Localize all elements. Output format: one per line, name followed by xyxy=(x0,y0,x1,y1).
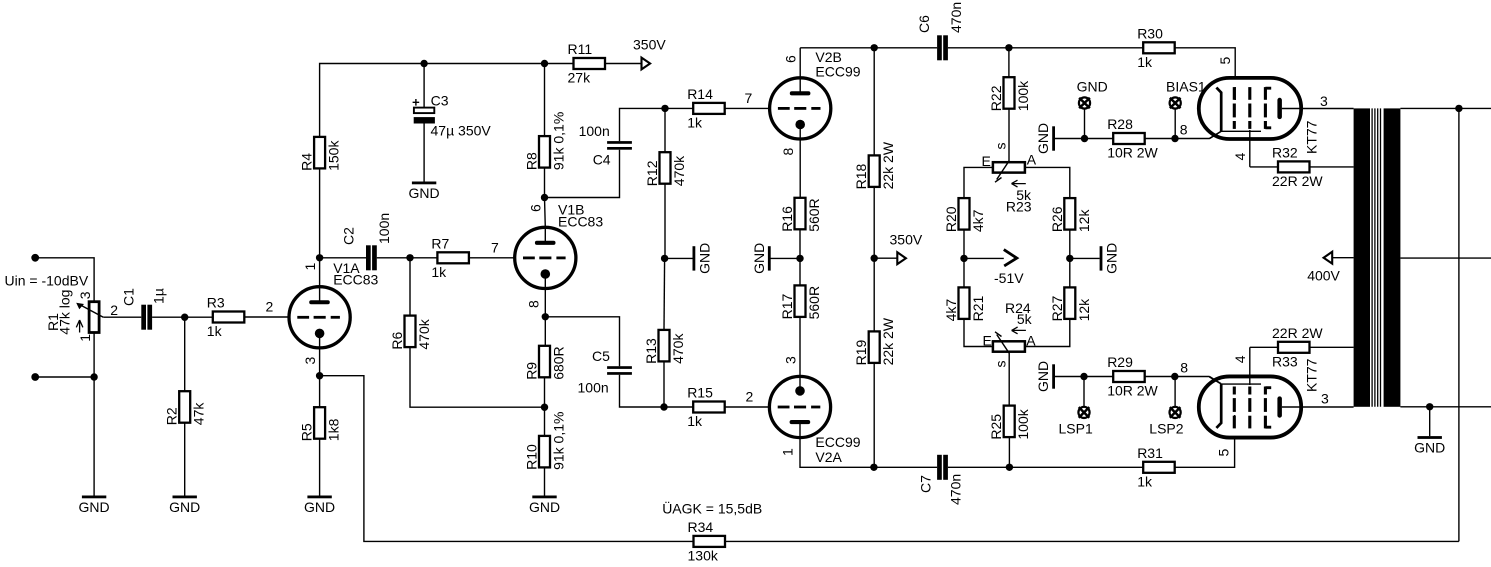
svg-text:KT77: KT77 xyxy=(1304,120,1320,154)
svg-text:LSP2: LSP2 xyxy=(1149,420,1183,436)
svg-text:3: 3 xyxy=(783,356,799,364)
svg-text:-51V: -51V xyxy=(994,270,1024,286)
svg-text:8: 8 xyxy=(1180,121,1188,137)
svg-text:5: 5 xyxy=(1217,57,1233,65)
svg-text:100n: 100n xyxy=(578,380,609,396)
svg-text:R21: R21 xyxy=(970,296,986,322)
svg-text:1: 1 xyxy=(77,334,93,342)
svg-text:350V: 350V xyxy=(633,37,666,53)
svg-text:R6: R6 xyxy=(389,331,405,349)
svg-text:5: 5 xyxy=(1216,449,1232,457)
svg-text:1µ: 1µ xyxy=(151,288,167,304)
svg-text:ECC83: ECC83 xyxy=(558,213,603,229)
svg-text:s: s xyxy=(993,361,1009,368)
svg-text:4: 4 xyxy=(1232,153,1248,161)
svg-text:GND: GND xyxy=(1414,440,1445,456)
svg-text:ECC99: ECC99 xyxy=(815,434,860,450)
svg-text:2: 2 xyxy=(266,299,274,315)
svg-text:C4: C4 xyxy=(593,152,611,168)
svg-text:GND: GND xyxy=(1104,243,1120,274)
svg-text:R32: R32 xyxy=(1272,144,1298,160)
svg-text:KT77: KT77 xyxy=(1304,358,1320,392)
svg-text:GND: GND xyxy=(169,499,200,515)
svg-text:47k: 47k xyxy=(191,402,207,426)
svg-text:5k: 5k xyxy=(1017,311,1033,327)
svg-text:1: 1 xyxy=(780,448,796,456)
svg-text:10R 2W: 10R 2W xyxy=(1107,383,1158,399)
svg-text:3: 3 xyxy=(1320,93,1328,109)
svg-text:GND: GND xyxy=(1035,361,1051,392)
svg-text:1k: 1k xyxy=(1137,473,1153,489)
svg-text:R14: R14 xyxy=(687,86,713,102)
svg-text:GND: GND xyxy=(1077,79,1108,95)
svg-text:680R: 680R xyxy=(551,346,567,379)
svg-text:560R: 560R xyxy=(806,286,822,319)
svg-text:R19: R19 xyxy=(853,340,869,366)
svg-text:ÜAGK = 15,5dB: ÜAGK = 15,5dB xyxy=(662,500,762,517)
svg-text:1k: 1k xyxy=(1137,54,1153,70)
svg-text:LSP1: LSP1 xyxy=(1059,420,1093,436)
svg-text:470k: 470k xyxy=(416,318,432,349)
svg-text:C6: C6 xyxy=(916,15,932,33)
svg-text:6: 6 xyxy=(528,204,544,212)
svg-text:470k: 470k xyxy=(671,155,687,186)
svg-text:GND: GND xyxy=(529,499,560,515)
svg-text:470n: 470n xyxy=(948,474,964,505)
svg-text:R12: R12 xyxy=(644,160,660,186)
svg-text:R5: R5 xyxy=(299,423,315,441)
svg-text:GND: GND xyxy=(696,243,712,274)
svg-text:47k log: 47k log xyxy=(57,290,73,335)
svg-text:1k: 1k xyxy=(687,114,703,130)
svg-text:3: 3 xyxy=(302,357,318,365)
svg-text:C7: C7 xyxy=(918,475,934,493)
svg-text:4k7: 4k7 xyxy=(970,209,986,232)
svg-text:1k: 1k xyxy=(431,264,447,280)
svg-text:1k: 1k xyxy=(207,323,223,339)
svg-text:R34: R34 xyxy=(688,519,714,535)
svg-text:7: 7 xyxy=(745,90,753,106)
svg-text:R8: R8 xyxy=(524,152,540,170)
svg-text:GND: GND xyxy=(304,499,335,515)
svg-text:BIAS1: BIAS1 xyxy=(1166,79,1206,95)
svg-text:R3: R3 xyxy=(207,295,225,311)
svg-text:100n: 100n xyxy=(376,213,392,244)
svg-text:22k 2W: 22k 2W xyxy=(880,141,896,189)
svg-text:R25: R25 xyxy=(988,414,1004,440)
svg-text:1k: 1k xyxy=(687,413,703,429)
svg-text:R10: R10 xyxy=(524,444,540,470)
svg-text:R33: R33 xyxy=(1272,353,1298,369)
svg-text:R16: R16 xyxy=(779,206,795,232)
svg-text:350V: 350V xyxy=(890,232,923,248)
svg-text:R30: R30 xyxy=(1137,25,1163,41)
svg-text:1: 1 xyxy=(302,263,318,271)
svg-text:C5: C5 xyxy=(592,348,610,364)
svg-text:7: 7 xyxy=(491,240,499,256)
svg-text:100k: 100k xyxy=(1015,80,1031,111)
svg-text:8: 8 xyxy=(780,148,796,156)
svg-text:R7: R7 xyxy=(431,235,449,251)
svg-text:12k: 12k xyxy=(1076,209,1092,233)
svg-text:s: s xyxy=(993,143,1009,150)
svg-text:3: 3 xyxy=(1321,391,1329,407)
svg-text:R9: R9 xyxy=(524,362,540,380)
svg-text:10R 2W: 10R 2W xyxy=(1107,145,1158,161)
svg-text:Uin = -10dBV: Uin = -10dBV xyxy=(5,273,89,289)
svg-text:R22: R22 xyxy=(988,85,1004,111)
svg-text:R11: R11 xyxy=(568,41,593,57)
svg-text:V2A: V2A xyxy=(815,449,842,465)
svg-text:ECC83: ECC83 xyxy=(333,272,378,288)
svg-text:91k 0,1%: 91k 0,1% xyxy=(551,112,567,170)
svg-text:R13: R13 xyxy=(643,338,659,364)
svg-text:R23: R23 xyxy=(1006,199,1032,215)
svg-text:8: 8 xyxy=(526,300,542,308)
svg-text:R4: R4 xyxy=(299,153,315,171)
svg-text:8: 8 xyxy=(1180,359,1188,375)
svg-text:GND: GND xyxy=(79,499,110,515)
svg-text:R17: R17 xyxy=(779,294,795,320)
svg-text:R28: R28 xyxy=(1107,116,1133,132)
svg-text:C1: C1 xyxy=(121,288,137,306)
svg-text:R18: R18 xyxy=(853,164,869,190)
svg-text:GND: GND xyxy=(409,185,440,201)
svg-text:130k: 130k xyxy=(688,547,719,563)
svg-text:470n: 470n xyxy=(948,2,964,33)
svg-text:R20: R20 xyxy=(943,206,959,232)
svg-text:GND: GND xyxy=(751,243,767,274)
svg-text:91k 0,1%: 91k 0,1% xyxy=(551,412,567,470)
svg-text:560R: 560R xyxy=(806,198,822,231)
svg-text:GND: GND xyxy=(1035,123,1051,154)
svg-text:150k: 150k xyxy=(326,140,342,171)
svg-text:2: 2 xyxy=(746,389,754,405)
svg-text:22R 2W: 22R 2W xyxy=(1272,173,1323,189)
svg-text:1k8: 1k8 xyxy=(326,418,342,441)
svg-text:27k: 27k xyxy=(568,70,592,86)
svg-text:R31: R31 xyxy=(1137,445,1163,461)
svg-text:12k: 12k xyxy=(1076,298,1092,322)
svg-text:E: E xyxy=(982,153,991,169)
svg-text:400V: 400V xyxy=(1307,268,1340,284)
svg-text:4k7: 4k7 xyxy=(943,299,959,322)
svg-text:C2: C2 xyxy=(341,227,357,245)
svg-text:22k 2W: 22k 2W xyxy=(880,317,896,365)
svg-text:47µ 350V: 47µ 350V xyxy=(431,123,492,139)
svg-text:R26: R26 xyxy=(1049,206,1065,232)
svg-text:R27: R27 xyxy=(1049,296,1065,322)
svg-text:2: 2 xyxy=(110,302,118,318)
svg-text:C3: C3 xyxy=(431,93,449,109)
svg-text:6: 6 xyxy=(783,55,799,63)
svg-text:R2: R2 xyxy=(164,407,180,425)
svg-text:100n: 100n xyxy=(579,123,610,139)
svg-text:3: 3 xyxy=(77,291,93,299)
svg-text:R15: R15 xyxy=(687,385,713,401)
svg-text:ECC99: ECC99 xyxy=(815,64,860,80)
svg-text:22R 2W: 22R 2W xyxy=(1272,325,1323,341)
svg-text:470k: 470k xyxy=(670,333,686,364)
svg-text:A: A xyxy=(1026,332,1036,348)
svg-text:100k: 100k xyxy=(1015,408,1031,439)
svg-text:4: 4 xyxy=(1232,355,1248,363)
svg-text:E: E xyxy=(982,332,991,348)
svg-text:R29: R29 xyxy=(1107,354,1133,370)
